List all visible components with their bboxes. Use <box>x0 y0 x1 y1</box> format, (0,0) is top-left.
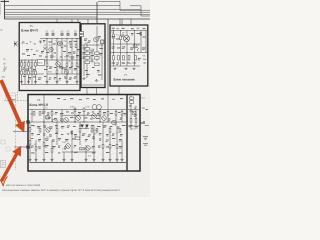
ground U4 g1 <box>82 77 85 79</box>
transistor U6 T2 <box>64 118 69 123</box>
junction dots U7 <box>113 30 135 53</box>
wire U6 vert l <box>35 140 37 163</box>
wire U6 upper rail <box>29 109 126 111</box>
resistor R10 <box>66 63 68 67</box>
wire into U6 left <box>13 131 28 133</box>
wire U4 rail y45 <box>82 44 104 46</box>
wire U6 vert p <box>63 152 65 163</box>
resistor U4 R7 <box>95 63 100 66</box>
transistor U7 T1 big <box>124 36 130 42</box>
ground U6 2 <box>34 159 37 161</box>
wire U4 vert x97 <box>96 26 98 61</box>
connector tab on U6 left border low <box>27 146 30 149</box>
ground U6 6 <box>70 159 73 161</box>
wire bus line 6 <box>5 16 98 18</box>
resistor R6b <box>28 71 30 75</box>
wire U7 vert x134.5 <box>134 31 136 67</box>
resistor row U7 r1 <box>113 56 115 61</box>
component U4 top-left straddle <box>80 32 84 34</box>
resistor R2 <box>24 63 26 67</box>
wire U6 vert v <box>109 126 111 163</box>
left edge scan streak <box>0 3 2 15</box>
wire U6 vert q <box>71 130 73 163</box>
component value labels U4 (illegible scan speckle) <box>82 36 103 75</box>
resistor U4 R3 <box>85 57 90 60</box>
resistor U6 r18 <box>29 141 31 145</box>
transistor T1 <box>58 41 63 46</box>
resistor R8 <box>46 63 48 67</box>
resistor U6 r22 <box>75 137 80 139</box>
resistor U6 r4 <box>74 108 76 112</box>
ground U4 g2 <box>95 79 98 81</box>
wire U6 right vert1 <box>130 95 132 130</box>
capacitor C7 <box>62 67 65 70</box>
transistor T2 <box>49 47 53 51</box>
block U5 border <box>19 23 80 91</box>
wire U5 top rail <box>40 38 80 40</box>
wire U6 vert h <box>107 94 109 122</box>
resistor U4 R1 <box>85 48 90 51</box>
ground g4 <box>45 81 48 83</box>
wire top-left vertical feeder <box>4 0 6 19</box>
wire bus drop x120 <box>119 19 121 25</box>
resistor U6 r11 <box>39 129 41 133</box>
component value labels U7 top row <box>112 28 146 29</box>
wire diode pair link <box>81 122 90 129</box>
red annotation arrow 1 <box>0 79 25 132</box>
resistor U6 right3 <box>130 119 132 123</box>
wire connector U7 to U6 <box>118 87 120 95</box>
wire U7 vert x141 <box>140 31 142 53</box>
trimmer block row <box>46 34 77 36</box>
ground U7 g1 <box>113 68 116 70</box>
wire U5 low rail <box>21 73 80 75</box>
wire U6 vert m <box>43 122 45 163</box>
resistor U6 r12 <box>56 129 58 133</box>
capacitor C5 cluster <box>74 33 77 36</box>
transistor U4 T1 <box>94 37 99 42</box>
resistor U4 R6 <box>85 61 90 64</box>
margin faint comp1 <box>1 140 5 144</box>
wire top-left tick <box>1 0 10 2</box>
wire U6 vert e <box>74 110 76 123</box>
wire U6 vert i <box>115 110 117 127</box>
resistor U6 r7 <box>107 112 109 116</box>
wire U6 right out y126 <box>127 124 143 126</box>
wire bus drop x122 <box>121 19 123 25</box>
component value labels U7 (illegible scan speckle) <box>112 33 146 65</box>
wire top border line <box>5 18 151 20</box>
wire U6 vert u <box>102 122 104 163</box>
transistor T4 <box>64 70 69 75</box>
wire U6 vert d <box>61 110 63 123</box>
resistor R15 <box>75 44 77 48</box>
wire U6 vert s <box>85 145 87 163</box>
wire vertical net x108 <box>107 19 109 94</box>
boundary dash line <box>4 92 28 101</box>
transformer U6 winding <box>92 105 101 110</box>
ground g3 <box>34 81 37 83</box>
resistor U6 r2 <box>39 112 41 116</box>
U6 interior <box>14 94 143 171</box>
external cap right 1 <box>141 121 149 126</box>
component value labels U6 top row <box>57 98 123 100</box>
wire U6 vert r <box>79 122 81 145</box>
resistor R6 <box>24 71 26 75</box>
component U4 top-left straddle2 <box>80 34 84 36</box>
ground U7 g3 <box>132 68 135 70</box>
wire U6 vert j <box>121 110 123 123</box>
ground U6 8 <box>92 159 95 161</box>
wire U6 vert x <box>121 140 123 163</box>
zener U7 Z1 <box>137 47 139 52</box>
wire U5 bottom rail <box>21 84 79 86</box>
wire bus drop x72 <box>71 19 73 23</box>
resistor R9 <box>56 70 58 74</box>
resistor U6 r13 <box>79 129 81 133</box>
resistor R12 <box>76 63 78 67</box>
ground g6 <box>65 81 68 83</box>
resistor R6c <box>35 71 37 75</box>
resistor U6 r24 <box>102 145 104 149</box>
wire bus line 3 <box>5 9 142 11</box>
wire bus line 2 <box>5 6 151 16</box>
resistor U4 R5 <box>95 57 100 60</box>
wire U5 vert v2 <box>24 60 26 85</box>
red checkmark <box>0 177 7 186</box>
ground U7 g2 <box>124 68 127 70</box>
margin faint small box <box>6 93 16 101</box>
wire U5 vert v5 <box>35 60 37 85</box>
wire U5 vert v3 <box>28 60 30 85</box>
ground g7 <box>75 81 78 83</box>
ground U6 5 <box>62 159 65 161</box>
resistor U7 R1 <box>113 34 115 38</box>
resistor U6 r1 <box>33 112 35 116</box>
margin faint comp2 <box>6 147 10 151</box>
ext specks right <box>142 107 145 110</box>
wire U4 bottom rail <box>82 84 104 86</box>
external chassis sym2 <box>143 144 148 146</box>
junction dots U5 <box>24 38 77 75</box>
external chassis sym <box>143 137 148 140</box>
wire U6 right vert2 <box>135 110 137 126</box>
input connector <box>14 41 20 47</box>
junction dots U4 <box>86 44 97 45</box>
wire bus line 5 <box>5 14 151 16</box>
resistor row U7 r2 <box>118 56 120 61</box>
resistor U6 r10 <box>29 128 31 132</box>
wire U6 mid rail <box>29 121 126 123</box>
wire U5 vert v1 <box>21 60 23 85</box>
transistor U6 T3 <box>76 116 81 121</box>
resistor U6 right4 <box>135 119 137 123</box>
wire U5 vert v7 <box>51 39 53 61</box>
capacitor C80 electrolytic <box>38 60 45 66</box>
resistor U6 r21 <box>51 149 53 153</box>
component value labels U6 (illegible scan speckle) <box>30 106 138 154</box>
transistor T3 <box>56 62 61 67</box>
resistor row U7 r4 <box>128 56 130 61</box>
resistor U6 r23 <box>80 148 85 150</box>
resistor U6 r9 <box>121 112 123 116</box>
resistor U4 R4 <box>95 52 100 55</box>
capacitor C2 cluster <box>52 33 55 36</box>
resistor U6 r5 <box>83 108 85 112</box>
resistor U6 r26 <box>116 145 118 149</box>
wire connector U4 to U6 a <box>86 88 88 94</box>
wire U7 vert x146 <box>145 31 147 53</box>
block U6 border <box>28 95 140 172</box>
transistor U6 T7 <box>66 144 71 149</box>
resistor U6 right2 <box>130 101 134 103</box>
wire U5 vert v11 <box>71 39 73 75</box>
resistor U6 r16 <box>109 129 111 133</box>
U7 interior <box>111 31 147 67</box>
junction dots U6 <box>43 94 127 153</box>
wire U5 vert v4 <box>31 60 33 85</box>
connector tab on U6 left border <box>27 121 30 124</box>
wire U5 vert v8 <box>56 39 58 85</box>
wire bus drop x131 <box>130 19 132 25</box>
transistor U6 T4 <box>92 114 97 119</box>
wire U6 lower mid rail <box>62 151 96 153</box>
wire U7 rail y66 <box>111 65 140 67</box>
resistor U6 on-wire <box>53 120 58 122</box>
wire U6 shield divider <box>126 95 128 171</box>
wire U6 rail y115 <box>62 114 100 116</box>
transistor U6 T8 <box>86 146 90 150</box>
wire U5 vert v12 <box>76 39 78 85</box>
ground U6 11 <box>115 159 118 161</box>
wire bus drop x57 <box>56 19 58 23</box>
component U4 top-right dark <box>101 40 104 43</box>
wire U4 vert x87 <box>86 45 88 78</box>
resistor U7 R2 <box>120 36 122 40</box>
wire U5 vert v9 <box>61 39 63 75</box>
wire U6 vert w <box>116 126 118 163</box>
capacitor C6 <box>39 41 42 44</box>
capacitor dark C12 <box>46 116 49 119</box>
U4 interior <box>82 26 104 85</box>
resistor U6 r19 <box>35 147 37 151</box>
wire U6 vert a <box>31 110 33 123</box>
ground U6 7 <box>84 159 87 161</box>
ground U6 10 <box>108 159 111 161</box>
ground U6 12 <box>120 159 123 161</box>
wire U7 rail y52.5 <box>111 52 147 54</box>
resistor R11 <box>71 63 73 67</box>
wire bus line 4 <box>5 11 151 13</box>
U5 top component row <box>46 33 78 36</box>
wire into U6 left y147 <box>14 146 28 148</box>
wire U6 vert t <box>93 126 95 163</box>
diode U6 d1 <box>71 131 73 134</box>
wire bus drop x88 <box>87 19 89 23</box>
resistor U6 r15 <box>96 129 98 133</box>
resistor U4 R2 <box>85 52 90 55</box>
wire U6 bottom rail <box>30 162 127 164</box>
resistor R6a <box>21 71 23 75</box>
capacitor U6 c1 <box>92 136 95 140</box>
resistor R7 <box>31 71 33 75</box>
wire U5 vert v10 <box>66 39 68 85</box>
wire U7 vert x127 <box>126 31 128 67</box>
transistor U6 T5 <box>102 116 107 121</box>
component value labels U5 (illegible scan speckle) <box>22 40 81 80</box>
wire U6 vert n <box>51 140 53 163</box>
resistor R1 <box>21 63 23 67</box>
wire U6 vert k <box>29 122 31 163</box>
wire bus line 1 <box>98 2 150 11</box>
resistor U6 r6 <box>99 112 101 116</box>
wire U7 vert x120.5 <box>120 31 122 67</box>
resistor R4 <box>31 63 33 67</box>
resistor U6 right1 <box>130 97 134 99</box>
wire U7 rail y44 <box>111 43 140 45</box>
wire U4 vert x102 <box>101 40 103 80</box>
resistor row U7 r3 <box>123 56 125 61</box>
resistor R14 <box>70 44 72 48</box>
transistor U6 T1 <box>46 128 50 132</box>
resistor U6 r17 <box>119 129 121 133</box>
boundary dash line vertical U6 <box>15 95 17 170</box>
ground U6 9 <box>101 159 104 161</box>
wire U7 rail y30.5 <box>111 30 147 32</box>
ground U6 1 <box>28 159 31 161</box>
resistor U6 r3 <box>51 112 53 116</box>
transistor U6 T6 <box>112 120 117 125</box>
transistor U7 T2 <box>133 44 137 48</box>
resistor U6 r25 <box>109 145 111 149</box>
wire U6 vert g <box>99 110 101 123</box>
wire connector U4 to U6 b <box>96 88 98 94</box>
wire U4 vert x84 <box>83 45 85 76</box>
resistor row U7 r5 <box>135 56 137 61</box>
red annotation arrow 2 <box>0 146 21 182</box>
resistor R13 <box>61 44 63 48</box>
resistor R3 <box>28 63 30 67</box>
diode D1 <box>43 44 47 51</box>
resistor U6 r8 <box>115 112 117 116</box>
wire U6 vert c <box>51 110 53 123</box>
wire U6 vert o <box>56 122 58 145</box>
wire bus drop x97 <box>96 2 98 23</box>
block U4 border (middle) <box>81 24 105 88</box>
ground U6 3 <box>42 159 45 161</box>
capacitor C1 cluster <box>46 33 49 36</box>
margin faint cap <box>3 66 8 73</box>
wire U6 vert f <box>83 110 85 123</box>
diode pair D7 dark <box>81 125 89 128</box>
wire U6 right rail <box>128 109 139 111</box>
transistor U6 T9 <box>132 111 136 115</box>
ground g5 <box>55 81 58 83</box>
resistor R5 <box>35 63 37 67</box>
margin faint box low <box>1 161 6 168</box>
block U7 border <box>110 25 148 86</box>
wire U6 vert b <box>43 95 45 122</box>
ground U6 4 <box>50 159 53 161</box>
resistor U6 r14 <box>91 129 93 133</box>
wire U5 vert v6 <box>46 39 48 85</box>
scan noise overlay <box>0 0 150 197</box>
ground g1 <box>20 81 23 83</box>
ground g2 <box>27 81 30 83</box>
wire U7 vert x113.5 <box>113 31 115 67</box>
diode U7 D1 <box>140 32 142 35</box>
resistor U6 r20 <box>43 143 45 147</box>
wire bus drop x78 <box>77 19 79 23</box>
capacitor C4 cluster <box>67 33 70 36</box>
capacitor C3 cluster <box>61 33 64 36</box>
wire U5 mid rail <box>20 59 80 61</box>
